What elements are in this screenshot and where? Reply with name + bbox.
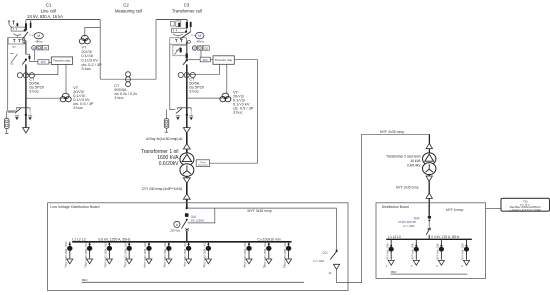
- svg-text:3 buc: 3 buc: [114, 96, 123, 100]
- svg-text:250A - NSX: 250A - NSX: [65, 241, 68, 254]
- svg-text:MYF 4x6 - 25A: MYF 4x6 - 25A: [462, 243, 465, 260]
- svg-text:+ battery 4x12Vcc 60Ah: + battery 4x12Vcc 60Ah: [509, 208, 541, 212]
- svg-text:11: 11: [282, 265, 285, 269]
- box 48V supply C3: [200, 57, 210, 62]
- ground left C3: [176, 115, 180, 117]
- wire Q11 drop: [336, 208, 338, 250]
- svg-text:Line cell: Line cell: [41, 8, 56, 13]
- motor aux M-OD cluster C1: [32, 46, 49, 51]
- svg-text:MYF 3x35 mmp: MYF 3x35 mmp: [396, 186, 419, 190]
- svg-text:protection: protection: [198, 164, 208, 167]
- wire C1 bus drop: [25, 20, 27, 31]
- wire blade to motor dash: [29, 34, 34, 37]
- wire C1 to VT tap: [26, 97, 63, 99]
- svg-text:48Vcc: 48Vcc: [197, 39, 205, 43]
- box Low Voltage Distribution Board: [48, 203, 348, 291]
- svg-text:11: 11: [328, 271, 331, 275]
- feeder 4 DB: [461, 239, 469, 267]
- wire M-OD to 48V box C3: [200, 50, 202, 57]
- feeder 7 LVDB: [183, 241, 191, 268]
- VT C3 symbol: [222, 93, 229, 98]
- earthing switch C3: [172, 108, 191, 114]
- feeder 1 DB: [386, 239, 394, 267]
- svg-text:L1 L2 L3: L1 L2 L3: [388, 235, 401, 239]
- feeder 3 LVDB: [104, 241, 112, 268]
- feeder 6 LVDB: [163, 241, 171, 268]
- junction small circle C3: [187, 40, 190, 43]
- motor operator M C1: [34, 33, 43, 39]
- contact box lower C1: [8, 38, 26, 44]
- svg-text:C1: C1: [46, 3, 52, 8]
- wire blade to motor dash C3: [191, 34, 195, 36]
- wire 48V to relay C1: [49, 62, 51, 64]
- svg-text:MYF 3x35 mmp: MYF 3x35 mmp: [248, 209, 272, 213]
- svg-text:48V: 48V: [203, 58, 208, 62]
- svg-text:250A - NSX: 250A - NSX: [85, 241, 88, 254]
- svg-text:Protection relay: Protection relay: [215, 59, 233, 62]
- feeder 11 LVDB: [282, 241, 291, 268]
- busbar LVDB 0.6kV: [72, 241, 291, 243]
- node C3 cell header: [172, 3, 202, 14]
- svg-text:40 kVA: 40 kVA: [410, 159, 421, 163]
- contact box lower C3: [170, 38, 187, 44]
- box 48V supply C1: [38, 60, 49, 64]
- wire C1 left riser: [8, 38, 17, 111]
- wire relay leg to VT C3: [226, 64, 228, 93]
- wire Qg2 to busbar: [428, 235, 430, 240]
- svg-text:Low Voltage Distribution Board: Low Voltage Distribution Board: [50, 205, 99, 209]
- svg-text:L1 L2 L3: L1 L2 L3: [72, 238, 85, 242]
- cable arrow into DB: [426, 193, 432, 198]
- protection relay U2 C3: [213, 56, 234, 65]
- svg-text:In = 63A: In = 63A: [403, 224, 414, 228]
- svg-text:MYF 4x6 - 25A: MYF 4x6 - 25A: [386, 243, 389, 260]
- svg-text:3 buc: 3 buc: [29, 89, 39, 94]
- feeder 8 LVDB: [203, 241, 211, 268]
- label VT C2: [81, 44, 102, 71]
- wire C2 right riser: [155, 20, 157, 80]
- cable arrow below T1: [183, 178, 190, 183]
- box Distribution Board: [376, 203, 486, 279]
- svg-text:Protection relay: Protection relay: [53, 59, 71, 62]
- svg-text:A2Xay 3x(1x150 mmp) AL: A2Xay 3x(1x150 mmp) AL: [146, 137, 183, 141]
- PEN bar LVDB: [82, 281, 304, 283]
- ground right C1 (dashed): [28, 110, 32, 121]
- wire fuse to 48V box C3: [187, 59, 200, 61]
- svg-text:MYF 4x6 - 25A: MYF 4x6 - 25A: [437, 243, 440, 260]
- svg-text:MYF 6 mmp: MYF 6 mmp: [446, 208, 464, 212]
- feeder 2 LVDB: [84, 241, 92, 268]
- svg-text:M: M: [33, 46, 35, 50]
- breaker blade C3 lower: [183, 60, 187, 65]
- svg-text:CYY 240 mmp (4x3P+2x1N): CYY 240 mmp (4x3P+2x1N): [142, 187, 182, 191]
- wire relay leg to CT C1: [26, 64, 58, 74]
- switch blade Q0 C1: [22, 32, 28, 40]
- PEN bar DB: [391, 273, 468, 275]
- svg-text:C3: C3: [184, 3, 190, 8]
- feeder 10 LVDB: [263, 241, 272, 268]
- wire relay leg to CT C3: [187, 64, 220, 74]
- svg-text:24 kV, 630 A, 16 kA: 24 kV, 630 A, 16 kA: [27, 14, 63, 19]
- svg-text:250A - NSX: 250A - NSX: [204, 241, 207, 254]
- breaker blade C1 lower: [22, 60, 26, 65]
- label transformer T2: [386, 154, 421, 167]
- feeder 1 LVDB: [64, 241, 72, 268]
- label transformer T1: [141, 149, 179, 167]
- svg-text:3 buc: 3 buc: [73, 105, 83, 110]
- svg-text:48Vcc: 48Vcc: [35, 40, 43, 44]
- svg-text:Distribution Board: Distribution Board: [382, 205, 409, 209]
- svg-text:0.6 kV, 1250 A, 50Hz: 0.6 kV, 1250 A, 50Hz: [98, 238, 130, 242]
- wire C1 main lower: [25, 64, 27, 128]
- node C1 cell header: [41, 3, 56, 14]
- wire Q11 to T2 riser: [337, 134, 430, 282]
- wire C1 main mid: [25, 42, 27, 55]
- cable arrow T2 top: [426, 143, 432, 148]
- svg-text:250A - NSX: 250A - NSX: [144, 241, 147, 254]
- svg-text:250A - NSX: 250A - NSX: [164, 241, 167, 254]
- junction incomer node: [186, 207, 188, 209]
- surge arrester C3: [164, 110, 169, 133]
- aux box + switch C3: [173, 45, 187, 56]
- svg-text:Transformer cell: Transformer cell: [172, 8, 202, 13]
- busbar DB 0.4kV: [386, 238, 472, 240]
- svg-text:M: M: [37, 34, 40, 38]
- transformer T1 (1600 kVA): [180, 153, 194, 177]
- svg-text:3 buc: 3 buc: [189, 89, 199, 94]
- svg-text:0.4 kV, 125 A, 50Hz: 0.4 kV, 125 A, 50Hz: [431, 235, 459, 239]
- wire fuse to 48V box: [29, 61, 37, 63]
- junction C1 earthing node: [25, 114, 27, 116]
- svg-text:3 buc: 3 buc: [81, 66, 91, 71]
- label CT 50/5A C1: [29, 76, 45, 93]
- wire C2 drop from bus: [99, 20, 101, 79]
- surge arrester C1: [5, 111, 10, 133]
- earthing switch C1: [8, 108, 30, 113]
- switch Q11: [330, 250, 337, 260]
- label VT C1: [73, 85, 94, 110]
- svg-text:0,4/0,4kV: 0,4/0,4kV: [407, 163, 421, 167]
- svg-text:250A - NSX: 250A - NSX: [105, 241, 108, 254]
- wire C3 main lower: [186, 64, 188, 128]
- breaker Qg2: [426, 216, 431, 235]
- CT 50/5A C3 (3 circles): [178, 72, 195, 77]
- wire C3 left riser: [170, 44, 173, 109]
- svg-text:10: 10: [263, 265, 267, 269]
- disconnector contact bars C3: [170, 21, 191, 32]
- wire C3 to VT tap: [187, 97, 223, 99]
- wire C2 bottom run: [100, 78, 156, 80]
- ground left C1: [15, 115, 19, 117]
- svg-text:PEN: PEN: [391, 270, 397, 274]
- cable arrow Q11: [334, 264, 340, 269]
- cable arrow out C1: [23, 128, 30, 133]
- svg-text:MYF 3x35 mmp: MYF 3x35 mmp: [380, 130, 404, 134]
- wire C2 to C3 feed: [156, 19, 187, 21]
- CT 50/5A C1 (3 circles): [17, 73, 34, 78]
- label VT C3: [233, 90, 254, 115]
- svg-text:Cu 100x10 mm: Cu 100x10 mm: [257, 238, 280, 242]
- wire T1 to LVDB: [186, 176, 188, 208]
- feeder 4 LVDB: [124, 241, 132, 268]
- wire relay leg to VT C1: [65, 64, 67, 93]
- svg-text:0.6/20kV: 0.6/20kV: [159, 161, 179, 167]
- svg-text:C2: C2: [123, 3, 129, 8]
- svg-text:M: M: [194, 46, 196, 50]
- wire temp box to relay C3: [210, 60, 258, 164]
- junction C3 earthing node: [186, 114, 188, 116]
- svg-text:250A - NSX: 250A - NSX: [284, 241, 287, 254]
- svg-text:Q11: Q11: [322, 250, 328, 254]
- wire Qg1 to busbar: [186, 231, 188, 242]
- label CT C2: [114, 84, 137, 100]
- cable head arrow C3: [183, 128, 190, 133]
- label Qg2: [398, 216, 420, 228]
- truck arc C1: [14, 34, 22, 35]
- svg-text:MYF 4x6 - 25A: MYF 4x6 - 25A: [411, 243, 414, 260]
- ground right C3 (dashed): [189, 110, 193, 121]
- label CT C3: [189, 76, 205, 93]
- svg-text:250A - NSX: 250A - NSX: [184, 241, 187, 254]
- temperature protection box T1: [196, 160, 209, 167]
- svg-text:In = 32A: In = 32A: [313, 259, 324, 263]
- breaker Qg1: [181, 213, 189, 230]
- feeder 3 DB: [436, 239, 444, 267]
- wire M-OD to 48V box: [34, 50, 36, 61]
- motor operator M C3: [196, 32, 204, 39]
- fuse F1 C1: [26, 54, 31, 61]
- motor aux M-OD cluster C3: [192, 46, 209, 51]
- junction C3 breaker node: [186, 59, 188, 61]
- VT C2 symbol: [81, 35, 88, 40]
- protection relay U1 C1: [51, 57, 72, 65]
- svg-text:M: M: [198, 34, 201, 38]
- svg-text:OD: OD: [44, 47, 48, 50]
- wire cable C3 to T1: [186, 133, 188, 153]
- svg-text:Measuring cell: Measuring cell: [115, 8, 142, 13]
- svg-text:230 Vca: 230 Vca: [170, 229, 180, 233]
- truck arc C3: [173, 34, 183, 36]
- feeder 5 LVDB: [144, 241, 152, 268]
- svg-text:Transformer 2 cast resin: Transformer 2 cast resin: [386, 154, 421, 158]
- svg-text:SF 1250A: SF 1250A: [191, 218, 204, 222]
- svg-text:Temp: Temp: [200, 162, 206, 164]
- svg-text:250A - NSX: 250A - NSX: [244, 241, 247, 254]
- wire T2 to DB: [428, 174, 430, 215]
- aux switch + label left C1: [10, 45, 17, 64]
- wire DB to TSI: [486, 208, 502, 210]
- wire 48V to relay C3: [210, 59, 213, 61]
- cable arrow below T2: [426, 176, 432, 181]
- svg-text:48V: 48V: [41, 60, 46, 64]
- box TSI rectifier: [501, 198, 550, 212]
- svg-text:OD: OD: [204, 48, 208, 51]
- svg-text:PEN: PEN: [82, 278, 88, 282]
- wire Qg1 bypass loop: [188, 208, 215, 223]
- svg-text:3 buc: 3 buc: [233, 110, 243, 115]
- wire 24kV bus C1 to C2: [26, 19, 101, 21]
- wire C3 main mid: [186, 42, 188, 55]
- wire C2 VT branch: [85, 28, 100, 37]
- cable head arrow T1 top: [183, 144, 190, 149]
- switch blade Q0 C3: [180, 32, 191, 39]
- feeder 2 DB: [411, 239, 419, 267]
- breaker truck symbol C3: [172, 28, 188, 33]
- label Qg1: [191, 214, 204, 222]
- VT C1 symbol: [62, 93, 69, 98]
- transformer T2 (40 kVA): [423, 153, 436, 175]
- node C2 cell header: [115, 3, 142, 14]
- fuse F C3: [186, 53, 188, 58]
- junction C1 breaker node: [25, 59, 27, 61]
- breaker truck symbol C1: [11, 27, 26, 31]
- svg-text:250A - NSX: 250A - NSX: [124, 241, 127, 254]
- wire riser to T2: [428, 134, 430, 153]
- disconnector QS1 contact bars: [8, 21, 32, 31]
- motor operator Qg1: [170, 221, 180, 232]
- CT C2 (3 circles vertical): [126, 72, 131, 87]
- cable arrow into LVDB: [183, 194, 190, 199]
- svg-text:250A - NSX: 250A - NSX: [264, 241, 267, 254]
- wire C3 bus drop: [186, 20, 188, 22]
- feeder 9 LVDB: [244, 241, 252, 268]
- wire incomer to Q11 feeder: [187, 207, 337, 209]
